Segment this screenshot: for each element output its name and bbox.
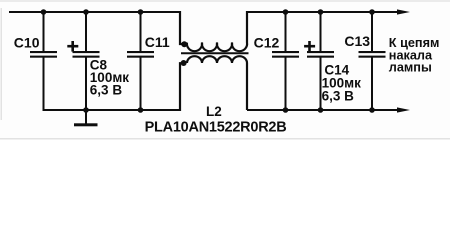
- inductor L2 upper winding: [180, 11, 187, 44]
- node: junction dot top C14: [318, 9, 324, 15]
- net label: К цепям накала лампы: [389, 36, 440, 74]
- node: junction dot bottom C11: [138, 107, 144, 113]
- polarity + of C14: [304, 41, 315, 52]
- node: junction dot bottom C12: [283, 107, 289, 113]
- ground: [74, 110, 98, 126]
- svg-text:C10: C10: [14, 35, 40, 51]
- node: junction dot top C13: [369, 9, 375, 15]
- node: junction dot top C8: [83, 9, 89, 15]
- wire: top rail right segment: [246, 11, 398, 13]
- scan edge artifact bottom: [0, 138, 450, 140]
- capacitor C14 (electrolytic): [307, 11, 334, 110]
- capacitor C12: [272, 11, 299, 110]
- capacitor C13: [359, 11, 386, 110]
- node: junction dot bottom C13: [369, 107, 375, 113]
- svg-text:L2: L2: [206, 104, 222, 119]
- svg-text:6,3 В: 6,3 В: [90, 82, 123, 97]
- capacitor C10: [30, 11, 57, 111]
- polarity dot upper winding: [181, 41, 187, 47]
- scan edge artifact top: [0, 0, 450, 2]
- svg-text:PLA10AN1522R0R2B: PLA10AN1522R0R2B: [145, 119, 287, 135]
- node: junction dot top C11: [138, 9, 144, 15]
- capacitor C8 (electrolytic): [73, 11, 100, 110]
- svg-text:C11: C11: [145, 34, 170, 50]
- svg-text:C13: C13: [344, 33, 370, 49]
- node: junction dot bottom C14: [318, 107, 324, 113]
- node: junction dot bottom C8: [83, 107, 89, 113]
- capacitor C11: [127, 11, 154, 110]
- svg-text:C12: C12: [254, 34, 280, 50]
- inductor L2 lower winding: [180, 63, 187, 111]
- wire: bottom rail right segment: [247, 109, 398, 111]
- node: junction dot top C12: [283, 9, 289, 15]
- arrow to filament circuit (bottom): [397, 107, 410, 112]
- core of L2: [181, 52, 249, 54]
- polarity dot lower winding: [181, 60, 187, 66]
- svg-text:6,3 В: 6,3 В: [322, 89, 355, 104]
- node: junction dot top C10: [41, 9, 47, 15]
- wire: bottom rail left segment: [44, 109, 181, 111]
- scan edge artifact left: [0, 8, 2, 120]
- polarity + of C8: [67, 41, 78, 52]
- arrow to filament circuit (top): [397, 9, 410, 14]
- wire: top rail left segment: [9, 11, 180, 13]
- svg-text:лампы: лампы: [389, 61, 432, 75]
